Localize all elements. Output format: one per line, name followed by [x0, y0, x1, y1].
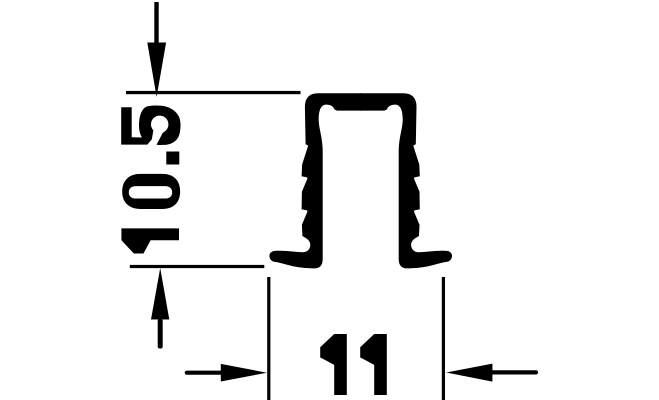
extension line right (11) — [442, 277, 445, 400]
dimension arrow left-pointing (right side of 11) — [446, 364, 536, 382]
dimension text 10.5 (rotated) — [121, 174, 180, 254]
dimension text 11 — [320, 334, 387, 395]
decimal dot of 10.5 — [166, 152, 179, 165]
dimension arrow down (top) — [147, 2, 166, 97]
extension line left (11) — [267, 277, 270, 400]
digit 5 of 10.5 — [121, 105, 180, 145]
profile cross-section left half — [269, 93, 361, 268]
profile cross-section right half (mirrored) — [360, 93, 452, 268]
dimension arrow right-pointing (left side of 11) — [187, 364, 267, 382]
dimension arrow up (bottom) — [151, 268, 169, 349]
extension line top (10.5) — [126, 91, 301, 94]
extension line bottom (10.5) — [130, 265, 264, 268]
